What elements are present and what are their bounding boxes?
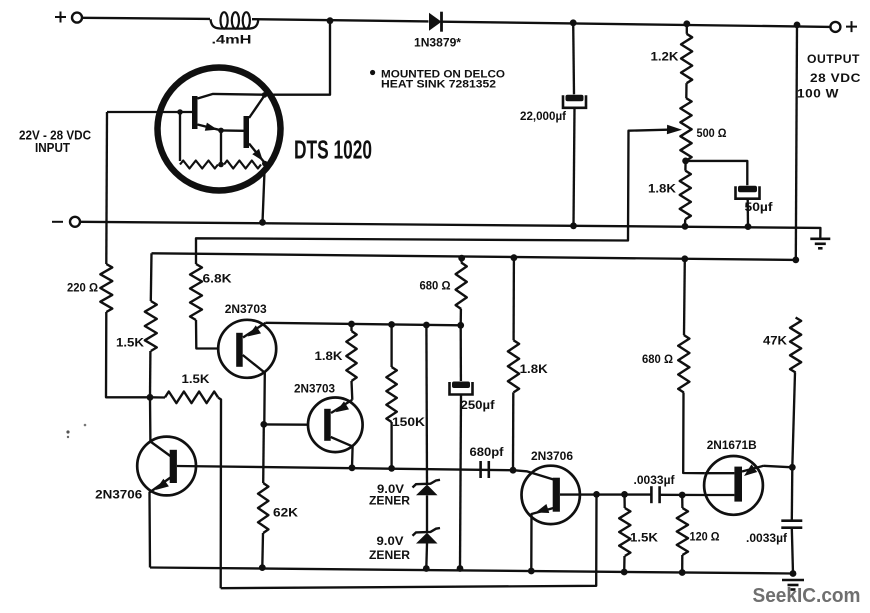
wire C6 to bottom rail bbox=[792, 528, 793, 574]
transistor Q1b emitter stroke bbox=[249, 144, 265, 164]
junction bottom rail / C250 bbox=[457, 565, 464, 572]
svg-text:22,000µf: 22,000µf bbox=[520, 109, 567, 123]
junction minus rail / DTS emitter bbox=[259, 219, 266, 226]
svg-text:2N3703: 2N3703 bbox=[294, 381, 335, 395]
label Q3 2N3703 bbox=[225, 302, 267, 316]
wire bias bus bbox=[152, 253, 796, 260]
wire Q6 base lead bbox=[560, 493, 651, 495]
junction base bus / R150K bbox=[388, 465, 395, 472]
svg-text:DTS 1020: DTS 1020 bbox=[294, 134, 372, 164]
transistor Q6 collector stroke bbox=[513, 470, 554, 479]
transistor Q3 emitter arrow (PNP) bbox=[248, 325, 262, 336]
svg-text:SeekIC.com: SeekIC.com bbox=[753, 585, 861, 607]
resistor R6 1.5K bbox=[145, 301, 157, 351]
wire pot bottom to C2 bbox=[686, 161, 748, 185]
junction minus rail / C1 bbox=[570, 222, 577, 229]
inductor L1 .4mH bbox=[211, 12, 259, 28]
svg-text:100 W: 100 W bbox=[797, 86, 839, 100]
svg-text:1.5K: 1.5K bbox=[630, 530, 658, 544]
label R4 1.8K bbox=[648, 181, 676, 195]
svg-text:680 Ω: 680 Ω bbox=[420, 278, 451, 292]
transistor Q7 2N1671B circle bbox=[704, 456, 763, 515]
resistor R2 1.2K bbox=[681, 34, 692, 83]
resistor R15 120 ohm bbox=[677, 508, 688, 555]
junction node A (L1/D1/DTS1020 collector) bbox=[327, 17, 334, 24]
transistor Q1b emitter arrow bbox=[252, 149, 263, 161]
wire node B down to C1 bbox=[572, 23, 575, 95]
terminal plus output bbox=[830, 21, 857, 32]
wire R17 to UJT emitter node bbox=[792, 373, 795, 468]
capacitor C4 680pf bbox=[481, 461, 489, 478]
wire DTS base-resistor drop bbox=[179, 112, 181, 161]
svg-text:2N3706: 2N3706 bbox=[95, 487, 142, 501]
junction bottom rail / Q6 emitter bbox=[528, 568, 535, 575]
label R10 1.8K bbox=[315, 349, 343, 363]
svg-text:500 Ω: 500 Ω bbox=[697, 126, 727, 140]
svg-text:9.0V: 9.0V bbox=[377, 536, 404, 548]
wire node G2 to R14 bbox=[623, 494, 626, 508]
wire R5 to base junction bbox=[106, 312, 148, 397]
label mounted note line2 bbox=[381, 79, 496, 91]
label Q6 2N3706 bbox=[531, 449, 573, 463]
wire pot to R4 bbox=[684, 161, 687, 171]
wire node E to R7 bbox=[150, 396, 165, 399]
label R5 220 Ω bbox=[67, 280, 98, 294]
wire R6 down to base junction bbox=[149, 351, 152, 397]
label Q4 2N3706 bbox=[95, 487, 142, 501]
label R6 1.5K bbox=[116, 335, 144, 349]
wire node D down to bias bus bbox=[796, 25, 797, 260]
transistor Q1a collector stroke bbox=[198, 94, 265, 99]
label C6 .0033µf bbox=[746, 531, 788, 545]
transistor Q7 emitter stroke bbox=[742, 466, 764, 472]
capacitor C1 22000uf bbox=[563, 95, 586, 108]
wire top rail input to inductor bbox=[82, 18, 210, 19]
svg-text:62K: 62K bbox=[273, 505, 298, 519]
svg-text:2N3706: 2N3706 bbox=[531, 449, 573, 463]
wire inductor to node A bbox=[252, 19, 429, 21]
svg-text:6.8K: 6.8K bbox=[203, 271, 232, 285]
svg-text:680pf: 680pf bbox=[470, 445, 505, 459]
label Q5 2N3703 bbox=[294, 381, 335, 395]
transistor Q6 emitter stroke bbox=[531, 508, 553, 571]
terminal plus input bbox=[55, 12, 82, 23]
label R17 47K bbox=[763, 333, 787, 347]
wire C3 to bottom rail bbox=[460, 395, 461, 569]
svg-text:150K: 150K bbox=[392, 415, 425, 429]
resistor R1a internal (left) bbox=[180, 161, 218, 169]
wire node F to Q5 base bbox=[264, 423, 309, 426]
junction bottom rail / R62K bbox=[259, 564, 266, 571]
transistor Q4 emitter stroke bbox=[150, 478, 171, 568]
wire emitter bus to R10 bbox=[350, 324, 352, 331]
junction node B (rail/C1) bbox=[570, 19, 577, 26]
speck scan dirt bbox=[66, 424, 86, 438]
resistor R13 1.8K bbox=[508, 340, 519, 392]
transistor Q7 base bar bbox=[734, 467, 742, 502]
junction node C (rail/R1.2K) bbox=[683, 20, 690, 27]
wire feedback rail bbox=[221, 494, 597, 588]
svg-text:47K: 47K bbox=[763, 333, 787, 347]
wire minus rail bbox=[80, 222, 820, 238]
resistor R17 47K bbox=[790, 318, 801, 373]
wire Q3 emitter bus bbox=[266, 323, 461, 326]
wire R8 to Q3 base bbox=[196, 320, 218, 349]
transistor Q3 2N3703 circle bbox=[218, 320, 276, 378]
transistor Q5 2N3703 circle bbox=[308, 398, 363, 453]
wire R4 to minus rail bbox=[684, 219, 687, 226]
junction bias bus / R47K bbox=[792, 257, 799, 264]
transistor Q5 emitter stroke bbox=[331, 400, 352, 413]
wire Q1a emitter down to resistor node bbox=[220, 130, 222, 164]
transistor Q5 collector stroke bbox=[331, 437, 353, 468]
zener diode D2 9.0V bbox=[413, 480, 441, 496]
label OUTPUT bbox=[807, 52, 860, 66]
label U1 DTS 1020 bbox=[294, 134, 372, 164]
label C4 680pf bbox=[470, 445, 505, 459]
ground symbol input common bbox=[810, 239, 830, 249]
transistor Q7 base1 stroke bbox=[706, 494, 735, 496]
wire wiper to feedback bus bbox=[196, 130, 668, 264]
label C5 .0033µf bbox=[634, 473, 676, 487]
op-amp U1 DTS1020 case circle bbox=[158, 68, 281, 191]
label C2 50µf bbox=[745, 200, 774, 214]
svg-text:2N1671B: 2N1671B bbox=[707, 438, 757, 452]
zener diode D3 9.0V bbox=[413, 528, 441, 544]
junction node G2 (R1.5K top) bbox=[621, 491, 628, 498]
svg-text:120 Ω: 120 Ω bbox=[690, 529, 720, 543]
svg-text:HEAT SINK 7281352: HEAT SINK 7281352 bbox=[381, 79, 496, 91]
wire C2 to minus rail bbox=[747, 199, 750, 227]
resistor R8 6.8K bbox=[190, 264, 202, 320]
label C3 250µf bbox=[461, 398, 496, 412]
wire R16 to UJT base2 bbox=[683, 393, 705, 474]
transistor Q5 base bar bbox=[324, 409, 331, 441]
label R7 1.5K bbox=[182, 372, 210, 386]
transistor Q1b base bar (inside DTS1020) bbox=[244, 116, 250, 148]
wire bias bus left drop to R1.5K bbox=[150, 253, 153, 301]
junction DTS base node bbox=[177, 109, 183, 115]
label INPUT bbox=[35, 141, 70, 155]
svg-text:1N3879*: 1N3879* bbox=[414, 38, 462, 50]
label mounted note line1 bbox=[370, 68, 505, 80]
wire D3 to bottom rail bbox=[425, 544, 428, 569]
label R15 120 Ω bbox=[690, 529, 720, 543]
transistor Q1a emitter stroke bbox=[198, 125, 221, 131]
transistor Q3 base bar bbox=[236, 333, 243, 367]
label R9 62K bbox=[273, 505, 298, 519]
svg-text:9.0V: 9.0V bbox=[377, 484, 404, 496]
resistor R10 1.8K bbox=[346, 331, 356, 381]
wire R10 to Q5 emitter bbox=[350, 381, 353, 400]
wire R2 to pot bbox=[685, 83, 688, 98]
transistor Q4 emitter arrow (NPN) bbox=[156, 479, 169, 490]
svg-text:1.5K: 1.5K bbox=[116, 335, 144, 349]
wire emitter bus node down to C3 bbox=[460, 325, 463, 381]
wire C1 to minus rail bbox=[574, 108, 575, 226]
junction internal resistor node bbox=[218, 162, 224, 168]
transistor Q1a base bar (inside DTS1020) bbox=[192, 96, 198, 129]
junction bottom rail / C .0033 ground bbox=[790, 570, 797, 577]
svg-text:INPUT: INPUT bbox=[35, 141, 70, 155]
wire bias bus to R12 bbox=[460, 258, 463, 262]
svg-text:28 VDC: 28 VDC bbox=[810, 71, 861, 85]
transistor Q7 base2 stroke bbox=[705, 472, 735, 474]
capacitor C3 250uf bbox=[450, 382, 473, 395]
wire node C to R2 bbox=[686, 24, 688, 34]
label R11 150K bbox=[392, 415, 425, 429]
wire Q4-base bus bbox=[177, 466, 513, 470]
transistor Q3 collector stroke bbox=[243, 355, 265, 424]
junction base bus / R1.8Kb bottom bbox=[510, 467, 517, 474]
wire R12 to emitter bus node bbox=[460, 309, 463, 325]
junction DTS collector node bbox=[262, 92, 268, 98]
junction node I (47K/E/C6) bbox=[789, 464, 796, 471]
junction pot bottom node bbox=[682, 158, 689, 165]
resistor R5 220 ohm bbox=[100, 264, 112, 312]
label R16 680 Ω bbox=[642, 352, 673, 366]
wire DTS emitter down to minus rail bbox=[263, 164, 265, 223]
label input 22V - 28 VDC bbox=[19, 129, 91, 143]
capacitor C5 .0033uf bbox=[651, 486, 659, 503]
transistor Q5 emitter arrow (PNP) bbox=[336, 401, 350, 412]
capacitor C6 .0033uf bbox=[781, 521, 802, 528]
svg-text:1.8K: 1.8K bbox=[520, 362, 548, 376]
label D2 ZENER bbox=[369, 496, 411, 508]
wire bias bus to R13 bbox=[512, 258, 515, 341]
label R14 1.5K bbox=[630, 530, 658, 544]
transistor Q4 2N3706 circle bbox=[137, 437, 196, 496]
junction node H (R120 top) bbox=[679, 492, 686, 499]
wire R14 to bottom rail bbox=[623, 556, 626, 572]
transistor Q7 emitter arrow bbox=[744, 464, 757, 476]
svg-text:50µf: 50µf bbox=[745, 200, 774, 214]
junction node E (R5/R6/R7/Q4 collector) bbox=[147, 394, 154, 401]
label R3 500 Ω bbox=[697, 126, 727, 140]
junction bias bus / R680b bbox=[681, 255, 688, 262]
transistor Q3 emitter stroke bbox=[243, 323, 266, 338]
terminal minus input bbox=[52, 217, 80, 227]
wire node A down to DTS collector bbox=[265, 21, 331, 95]
wire node I down to C6 bbox=[791, 467, 794, 520]
svg-text:250µf: 250µf bbox=[461, 398, 496, 412]
wire Q1a emitter to Q1b base bbox=[221, 129, 244, 132]
wire D2 to D3 bbox=[426, 495, 428, 532]
wire DTS base down to R220 bbox=[105, 112, 108, 264]
wire C5 to UJT base1 bbox=[660, 494, 706, 497]
svg-text:1.8K: 1.8K bbox=[315, 349, 343, 363]
resistor R7 1.5K horizontal bbox=[165, 392, 218, 404]
label 100 W bbox=[797, 86, 839, 100]
wire node F down to R62K bbox=[262, 424, 265, 483]
junction bias bus / R680a bbox=[458, 255, 465, 262]
label R12 680 Ω bbox=[420, 278, 451, 292]
junction Q1b emitter node bbox=[262, 161, 268, 167]
wire DTS base lead from left bbox=[107, 111, 192, 113]
svg-text:1.5K: 1.5K bbox=[182, 372, 210, 386]
wire R11 to base wire bbox=[390, 422, 392, 468]
transistor Q1b collector stroke bbox=[249, 96, 265, 119]
wire R15 to bottom rail bbox=[681, 555, 683, 573]
label D2 9.0V bbox=[377, 484, 404, 496]
svg-text:ZENER: ZENER bbox=[369, 496, 411, 508]
transistor Q6 emitter arrow (NPN) bbox=[536, 504, 550, 513]
label 28 VDC bbox=[810, 71, 861, 85]
transistor Q4 base bar bbox=[170, 450, 177, 483]
wire emitter bus down to zener D2 bbox=[425, 325, 428, 484]
resistor R14 1.5K bbox=[619, 508, 630, 556]
svg-text:680 Ω: 680 Ω bbox=[642, 352, 673, 366]
ground symbol output common bbox=[782, 580, 804, 590]
junction node D (rail/output/47K feed) bbox=[794, 22, 801, 29]
svg-text:.0033µf: .0033µf bbox=[746, 531, 788, 545]
svg-text:OUTPUT: OUTPUT bbox=[807, 52, 860, 66]
junction node G (Q6 base/feedback) bbox=[593, 491, 600, 498]
wire emitter bus to R11 bbox=[390, 325, 392, 368]
label Q7 2N1671B bbox=[707, 438, 757, 452]
junction node F (Q3 coll/62K/Q5 base) bbox=[260, 421, 267, 428]
junction bottom rail / R1.5K bbox=[621, 569, 628, 576]
resistor R11 150K bbox=[386, 367, 396, 422]
junction emitter bus / R1.8Ka bbox=[348, 321, 355, 328]
resistor R9 62K bbox=[258, 483, 268, 533]
junction emitter bus / R150K bbox=[388, 321, 395, 328]
potentiometer R3 500 ohm element bbox=[680, 98, 691, 161]
svg-text:1.2K: 1.2K bbox=[651, 49, 679, 63]
capacitor C2 50uf bbox=[736, 186, 760, 199]
svg-text:.4mH: .4mH bbox=[212, 35, 252, 47]
watermark SeekIC.com bbox=[753, 585, 861, 607]
wire bottom rail bbox=[150, 568, 793, 574]
svg-text:1.8K: 1.8K bbox=[648, 181, 676, 195]
label L1 value .4mH bbox=[212, 35, 252, 47]
wire R9 to bottom rail bbox=[261, 533, 264, 568]
junction base bus / Q5 collector bbox=[349, 464, 356, 471]
label C1 22,000µf bbox=[520, 109, 567, 123]
wire node H to R15 bbox=[681, 495, 684, 508]
wire top rail diode to output bbox=[442, 22, 831, 27]
svg-text:.0033µf: .0033µf bbox=[634, 473, 676, 487]
label D3 9.0V bbox=[377, 536, 404, 548]
svg-text:220 Ω: 220 Ω bbox=[67, 280, 98, 294]
wire R13 to base bus bbox=[512, 392, 515, 470]
junction emitter bus / zeners bbox=[423, 322, 430, 329]
junction bottom rail / R120 bbox=[679, 569, 686, 576]
wire bias bus to R16 bbox=[683, 259, 686, 335]
diode D1 1N3879 bbox=[429, 12, 442, 32]
potentiometer R3 wiper arrow bbox=[667, 125, 682, 135]
transistor Q6 base bar bbox=[553, 478, 560, 512]
resistor R12 680 ohm bbox=[456, 263, 467, 310]
transistor Q6 2N3706 circle bbox=[522, 466, 580, 524]
label D1 1N3879* bbox=[414, 38, 462, 50]
resistor R4 1.8K bbox=[680, 171, 691, 220]
wire Q7 emitter to node I bbox=[764, 466, 793, 468]
junction minus rail / R1.8K bbox=[682, 223, 689, 230]
resistor R1b internal (right) bbox=[224, 161, 261, 169]
label R13 1.8K bbox=[520, 362, 548, 376]
wire R7 to corner bbox=[218, 398, 221, 589]
resistor R16 680 ohm bbox=[678, 335, 689, 393]
junction bottom rail / zener bbox=[423, 565, 430, 572]
junction Q1a emitter node bbox=[218, 128, 224, 134]
junction minus rail / C50uf bbox=[745, 223, 752, 230]
transistor Q4 collector stroke bbox=[150, 397, 171, 456]
junction bias bus / R1.8Kb bbox=[511, 254, 518, 261]
junction emitter bus / C250 and R680a bbox=[457, 322, 464, 329]
svg-text:ZENER: ZENER bbox=[369, 550, 411, 562]
svg-text:2N3703: 2N3703 bbox=[225, 302, 267, 316]
label R8 6.8K bbox=[203, 271, 232, 285]
transistor Q1a emitter arrow bbox=[205, 123, 218, 131]
label R2 1.2K bbox=[651, 49, 679, 63]
label D3 ZENER bbox=[369, 550, 411, 562]
